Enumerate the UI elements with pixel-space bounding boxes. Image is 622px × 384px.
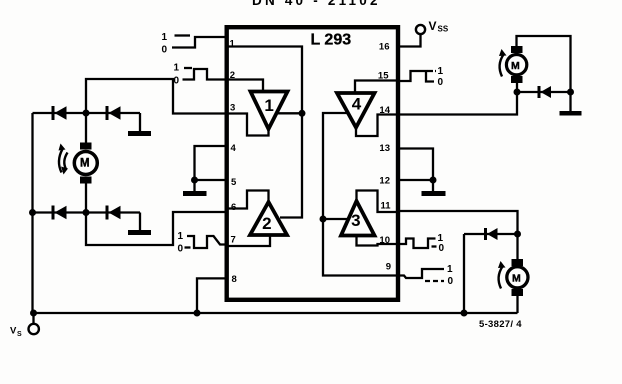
svg-text:0: 0	[439, 243, 445, 254]
svg-text:1: 1	[438, 66, 444, 77]
svg-text:M: M	[511, 60, 520, 72]
pin 5 number	[231, 177, 237, 188]
svg-text:11: 11	[380, 201, 391, 212]
diode D3	[52, 206, 67, 220]
wire pin3 to left motor top node	[86, 79, 226, 114]
diode D2	[106, 106, 121, 120]
svg-text:1: 1	[162, 32, 168, 43]
svg-text:SS: SS	[438, 25, 449, 34]
diode D4	[106, 206, 121, 220]
bottom diode row wire	[33, 211, 141, 213]
motor M1 rotation arrows	[59, 144, 69, 175]
svg-text:L 293: L 293	[311, 32, 352, 49]
terminal VSS circle	[416, 25, 425, 34]
pin 12 number	[379, 176, 390, 187]
IC label L 293	[311, 32, 352, 49]
junction left motor bottom node	[83, 209, 90, 216]
motor M1 label	[80, 158, 90, 170]
pin 10 number	[379, 235, 390, 246]
left supply rail	[31, 113, 33, 313]
svg-text:13: 13	[379, 143, 390, 154]
wire EN1 pin1 to drivers 1 and 2	[225, 47, 302, 218]
wire pin8 to rail	[197, 278, 226, 313]
pin 6 number	[231, 202, 236, 213]
svg-text:3: 3	[351, 211, 360, 230]
pin 1 number	[230, 39, 236, 50]
waveform IN3 labels	[438, 233, 445, 254]
wire OUT4 A4 output to pin14	[356, 115, 400, 137]
pin 8 number	[232, 274, 237, 285]
pin 14 number	[379, 105, 390, 116]
cropped caption text at top	[252, 0, 381, 8]
pin 15 number	[378, 71, 389, 82]
driver A4 label 4	[352, 95, 362, 114]
svg-text:0: 0	[448, 276, 454, 287]
junction pins 4,5	[191, 177, 198, 184]
svg-text:5: 5	[231, 177, 237, 188]
junction EN2 at driver3	[320, 216, 327, 223]
wire IN2 pin7 to A2 input	[225, 236, 270, 247]
svg-text:S: S	[17, 331, 22, 338]
svg-text:9: 9	[386, 262, 391, 273]
svg-text:V: V	[429, 19, 437, 33]
wire IN4 pin15 to A4 input	[355, 81, 400, 94]
svg-text:1: 1	[447, 264, 453, 275]
driver A3 label 3	[351, 211, 360, 230]
ground G3 pins 4,5	[183, 146, 226, 196]
wire pin14 to top right motor	[398, 92, 517, 115]
motor M3 label	[512, 273, 521, 285]
waveform IN2 inverted pulse at pin7	[185, 236, 227, 248]
wire D6 to supply rail	[463, 234, 465, 313]
waveform IN4 pulse at pin15	[398, 71, 436, 82]
svg-text:4: 4	[231, 143, 237, 154]
driver A2 label 2	[262, 214, 271, 233]
svg-text:5-3827/ 4: 5-3827/ 4	[479, 319, 522, 330]
wire OUT1 A1 output to pin3	[225, 114, 269, 136]
wire pin11 to bottom right motor	[400, 211, 518, 234]
driver A1 label 1	[264, 96, 273, 115]
junction bottom right motor node	[514, 231, 521, 238]
driver A4 triangle	[337, 93, 375, 128]
diode D6	[464, 228, 518, 240]
svg-text:1: 1	[174, 63, 180, 74]
svg-text:0: 0	[174, 76, 180, 87]
driver A1 triangle	[251, 92, 288, 130]
junction D6 rail	[461, 310, 468, 317]
svg-text:M: M	[512, 273, 521, 285]
svg-text:8: 8	[232, 274, 237, 285]
junction EN1 at driver1	[299, 110, 306, 117]
svg-text:0: 0	[162, 45, 168, 56]
svg-text:DN 40 - 21102: DN 40 - 21102	[252, 0, 381, 8]
motor M2 rotation arrow	[499, 49, 507, 77]
svg-text:2: 2	[262, 214, 271, 233]
pin 9 number	[386, 262, 391, 273]
motor M2 label	[511, 60, 520, 72]
ground G2 after D4	[128, 213, 151, 236]
diode D1	[52, 106, 67, 120]
svg-text:16: 16	[379, 42, 390, 53]
pin 7 number	[231, 235, 236, 246]
wire EN2 pin9 to drivers 3 and 4	[323, 113, 400, 276]
wire IN1 pin2 to A1 input	[225, 80, 263, 92]
motor M2 top right	[506, 36, 570, 111]
svg-text:M: M	[80, 158, 90, 170]
svg-text:4: 4	[352, 95, 362, 114]
terminal VS circle	[29, 313, 39, 334]
svg-text:1: 1	[230, 39, 236, 50]
waveform EN2 labels	[447, 264, 454, 287]
svg-text:7: 7	[231, 235, 236, 246]
waveform IN3 inverted pulse at pin10	[398, 239, 437, 249]
ground G4 pins 13,12	[398, 149, 446, 197]
motor M1 left	[74, 113, 97, 213]
waveform EN1 step at pin1	[172, 36, 226, 48]
top diode row wire	[33, 112, 141, 114]
svg-text:0: 0	[178, 244, 184, 255]
svg-text:V: V	[10, 326, 17, 337]
waveform IN4 labels	[438, 66, 444, 88]
bottom supply rail	[33, 312, 518, 314]
wire IN3 pin10 to A3 input	[357, 236, 401, 246]
svg-text:0: 0	[438, 77, 444, 88]
junction D5 ground branch	[567, 89, 574, 96]
pin 4 number	[231, 143, 237, 154]
svg-text:3: 3	[230, 103, 235, 114]
pin 13 number	[379, 143, 390, 154]
figure number 5-3827/4	[479, 319, 522, 330]
junction pins 13,12	[430, 177, 437, 184]
pin 3 number	[230, 103, 235, 114]
junction left motor top node	[83, 110, 90, 117]
pin 2 number	[230, 70, 235, 81]
svg-text:1: 1	[178, 231, 184, 242]
diode D5	[517, 86, 571, 98]
pin 16 number	[379, 42, 390, 53]
driver A2 triangle	[250, 202, 287, 235]
label VSS	[429, 19, 449, 34]
junction rail left diode row2	[29, 209, 36, 216]
svg-text:1: 1	[264, 96, 273, 115]
wire pin6 to left motor bottom node	[86, 212, 226, 245]
junction pin8 rail	[194, 310, 201, 317]
wire OUT2 A2 output to pin6	[225, 191, 269, 209]
waveform IN1 pulse at pin2	[183, 68, 227, 80]
driver A3 triangle	[341, 201, 375, 236]
IC U1 L293 body	[227, 27, 398, 300]
pin 11 number	[380, 201, 391, 212]
ground G5 top right	[560, 111, 582, 116]
ground G1 after D2	[128, 113, 151, 136]
wire VSS to pin16	[398, 35, 421, 47]
motor M3 bottom right	[507, 234, 528, 313]
waveform EN2 step at pin9	[398, 269, 444, 281]
junction rail VS	[30, 310, 37, 317]
wire OUT3 A3 output to pin11	[357, 191, 401, 213]
waveform EN1 labels	[162, 32, 168, 56]
label VS	[10, 326, 22, 339]
svg-text:12: 12	[379, 176, 390, 187]
waveform IN2 labels	[178, 231, 184, 255]
waveform IN1 labels	[174, 63, 180, 87]
junction top right motor node	[514, 89, 521, 96]
motor M3 rotation arrow	[498, 261, 506, 289]
